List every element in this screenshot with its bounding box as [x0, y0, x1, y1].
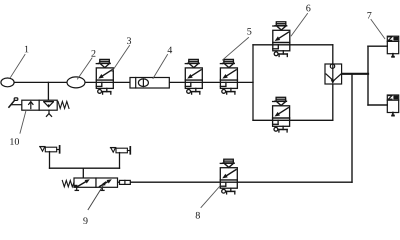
label 7 — [367, 12, 371, 19]
wire: bottom return rail through valve 8 — [118, 181, 353, 183]
label 8 — [196, 212, 200, 219]
spring of valve 9 — [62, 181, 74, 187]
wire: vertical return line — [351, 74, 353, 182]
wire: pilot drop into valve 9 — [82, 168, 84, 178]
solenoid valve 8 — [220, 159, 237, 194]
pump symbol 2 — [67, 77, 85, 88]
label 1 — [25, 46, 29, 53]
label 2 — [91, 50, 95, 57]
leader 5 — [223, 38, 249, 61]
shut-off valve 10 — [22, 100, 57, 110]
leader 2 — [78, 58, 93, 79]
label 3 — [127, 37, 131, 44]
wire: vertical manifold to valves 7 — [367, 46, 369, 105]
solenoid valve 6 (top) — [273, 22, 290, 57]
solenoid valve (unlabeled, left of 5) — [185, 59, 202, 94]
directional valve 9 — [74, 178, 118, 187]
solenoid valve 7 (top) — [387, 36, 398, 58]
label 9 — [83, 217, 87, 224]
leader 3 — [112, 46, 130, 72]
pump symbol 1 — [1, 78, 14, 87]
leader 8 — [201, 186, 220, 208]
wire: right pilot drop — [119, 153, 121, 169]
regulator valve 3 — [96, 59, 113, 94]
wire: stub to valve 7 top — [368, 45, 387, 47]
wire: drop from main pipe to valve 10 — [47, 82, 49, 101]
pilot actuator (right) — [111, 147, 131, 154]
leader 9 — [88, 181, 106, 210]
label 4 — [168, 47, 173, 54]
flow meter 4 — [130, 78, 169, 89]
label 5 — [247, 28, 251, 35]
roller lever of valve 10 — [9, 98, 22, 107]
wire: bottom rail of branch loop — [253, 119, 333, 121]
plug connector after valve 9 — [120, 180, 131, 184]
wire: right vertical of branch loop — [332, 45, 334, 121]
leader 1 — [11, 55, 26, 78]
exhaust under valve 10 — [46, 110, 51, 116]
leader 6 — [291, 14, 307, 36]
label 6 — [306, 5, 310, 12]
solenoid valve 7 (bottom) — [387, 95, 398, 117]
wire: thick output line from check box — [342, 73, 368, 75]
leader 10 — [20, 111, 26, 134]
solenoid valve 5 — [220, 59, 237, 94]
leader 7 — [371, 20, 385, 39]
wire: pilot bus above valve 9 — [50, 167, 120, 169]
label 10 — [10, 138, 19, 145]
wire: stub to valve 7 bottom — [368, 104, 387, 106]
wire: main supply pipe — [14, 81, 253, 83]
leader 4 — [153, 55, 168, 79]
spring of valve 10 — [58, 101, 69, 108]
pilot actuator (left) — [40, 146, 60, 153]
wire: left pilot drop — [49, 152, 51, 169]
check valve box — [325, 64, 342, 84]
solenoid valve 6 (bottom) — [273, 97, 290, 132]
wire: left vertical of branch loop — [252, 45, 254, 121]
port stubs under valve 9 — [75, 187, 104, 190]
wire: top rail of branch loop — [253, 44, 333, 46]
